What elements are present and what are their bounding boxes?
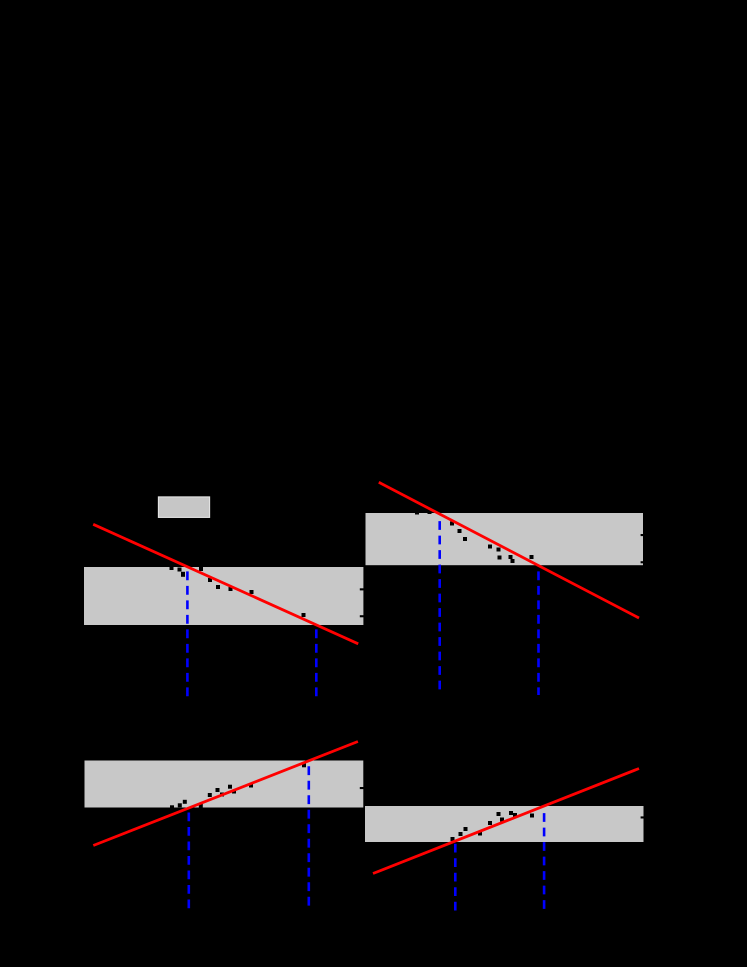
- regression line TR: [379, 482, 639, 618]
- data points BR: [451, 811, 535, 841]
- data points TL: [170, 566, 306, 617]
- bottom-left panel: [85, 742, 364, 911]
- confidence band BL: [85, 761, 364, 808]
- dashed vertical BL-1: [188, 808, 191, 911]
- regression line BR: [373, 769, 639, 874]
- dashed vertical TL-1: [186, 567, 189, 698]
- axis tick TR-1: [641, 534, 645, 536]
- top-left panel: [84, 497, 364, 698]
- dashed vertical TR-2: [537, 566, 540, 695]
- top-right panel: [366, 482, 645, 695]
- axis tick TL-2: [360, 615, 364, 617]
- axis tick TL-1: [360, 588, 364, 590]
- legend box TL: [158, 497, 209, 518]
- dashed vertical BL-2: [307, 761, 310, 911]
- confidence band TR: [366, 513, 644, 565]
- dashed vertical BR-1: [454, 842, 457, 911]
- dashed vertical TL-2: [315, 625, 318, 698]
- confidence band TL: [84, 567, 363, 625]
- dashed vertical BR-2: [543, 807, 546, 910]
- data points BL: [170, 763, 306, 809]
- axis tick BR-1: [641, 816, 645, 818]
- regression line TL: [93, 524, 358, 644]
- axis tick BL-1: [360, 787, 364, 789]
- regression line BL: [93, 742, 358, 846]
- bottom-right panel: [365, 769, 645, 911]
- dashed vertical TR-1: [438, 515, 441, 695]
- data points TR: [415, 510, 534, 563]
- axis tick TR-2: [641, 561, 644, 563]
- confidence band BR: [365, 806, 644, 842]
